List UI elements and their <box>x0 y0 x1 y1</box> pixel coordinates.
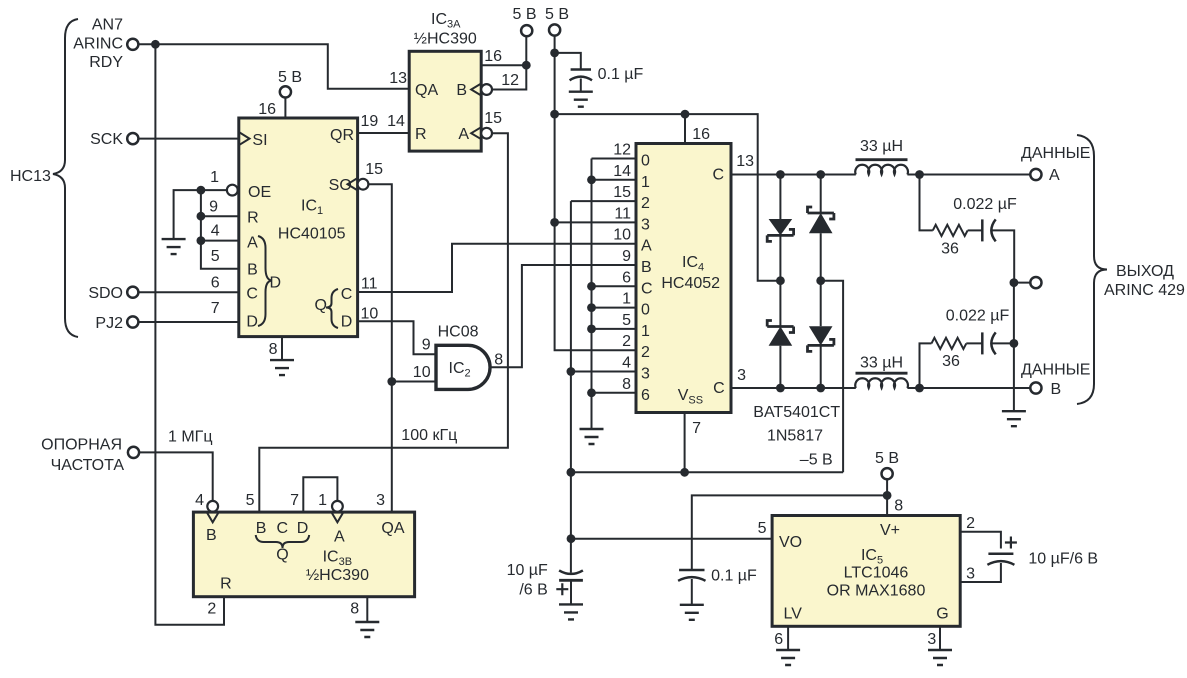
junction -5V clamp node <box>816 276 825 285</box>
wire RC snubber channel B <box>920 343 932 388</box>
svg-text:ЧАСТОТА: ЧАСТОТА <box>51 457 125 474</box>
wedge B input IC3B <box>207 512 219 522</box>
pin 3 stub IC5 <box>960 563 1001 582</box>
svg-text:ДАННЫЕ: ДАННЫЕ <box>1021 145 1090 162</box>
junction 5V IC5 branch <box>883 491 892 500</box>
junction VO to -5V vertical <box>567 534 576 543</box>
ground IC1 pin 8 <box>270 360 294 375</box>
svg-text:D: D <box>270 275 282 292</box>
svg-text:7: 7 <box>290 492 299 509</box>
svg-text:A: A <box>458 126 469 143</box>
svg-text:PJ2: PJ2 <box>95 315 123 332</box>
svg-text:8: 8 <box>350 601 359 618</box>
svg-text:2: 2 <box>641 195 650 212</box>
wire OE bus to ground <box>174 190 201 239</box>
svg-text:5: 5 <box>211 248 220 265</box>
wire 5V top rail to diode clamp node <box>555 114 781 281</box>
wire reference frequency to IC3B B pin 4 <box>139 452 213 501</box>
IC U3B half HC390 box <box>193 512 414 597</box>
wire OE R A B tie-down bus <box>201 190 239 269</box>
junction -5V rail to reservoir cap <box>567 468 576 477</box>
svg-text:OR MAX1680: OR MAX1680 <box>827 583 926 600</box>
diode D1 BAT54 to +5V (left top) <box>779 175 781 220</box>
junction gnd bus pin6 <box>587 282 596 291</box>
junction diode chain left top <box>776 170 785 179</box>
svg-text:10: 10 <box>413 364 431 381</box>
plus sign pump cap <box>1005 537 1017 549</box>
bubble A pin 15 IC3A <box>481 128 492 139</box>
wire to IC2 input 10 <box>392 381 436 383</box>
junction gnd bus pin8 <box>587 388 596 397</box>
svg-text:C: C <box>713 380 725 397</box>
ground IC3B pin 8 <box>355 622 379 637</box>
svg-text:RDY: RDY <box>89 54 123 71</box>
resistor R1 36 channel A <box>933 225 968 236</box>
svg-text:15: 15 <box>613 184 631 201</box>
inductor L1 33uH channel A <box>855 165 908 175</box>
junction 5V to bypass cap <box>550 49 559 58</box>
terminal PJ2 <box>127 316 138 327</box>
junction gnd bus pin5 <box>587 325 596 334</box>
svg-text:8: 8 <box>894 498 903 515</box>
svg-text:16: 16 <box>692 126 710 143</box>
power 5V terminal 2 <box>549 24 560 35</box>
svg-text:SDO: SDO <box>88 285 123 302</box>
bubble SO pin 15 <box>358 179 369 190</box>
svg-text:1 МГц: 1 МГц <box>168 429 213 446</box>
AND gate IC2 HC08 body <box>436 345 490 389</box>
svg-text:10: 10 <box>361 306 379 323</box>
wire C13 output line to inductor <box>731 174 856 176</box>
svg-text:1: 1 <box>641 174 650 191</box>
svg-text:6: 6 <box>622 269 631 286</box>
junction 5V pin16 <box>522 61 531 70</box>
svg-text:16: 16 <box>484 48 502 65</box>
svg-text:2: 2 <box>207 601 216 618</box>
svg-text:5 В: 5 В <box>512 6 536 23</box>
bubble OE pin 1 <box>227 185 238 196</box>
junction channel B RC branch <box>915 384 924 393</box>
svg-text:Q: Q <box>276 547 288 564</box>
svg-text:16: 16 <box>258 101 276 118</box>
svg-text:5: 5 <box>622 312 631 329</box>
svg-text:6: 6 <box>211 275 220 292</box>
wire jumper pin7 D to pin1 A <box>303 477 337 512</box>
junction diode left bottom <box>776 384 785 393</box>
svg-text:½HC390: ½HC390 <box>306 567 369 584</box>
svg-text:QA: QA <box>415 82 438 99</box>
wire SDO to IC1 C pin 6 <box>139 291 239 293</box>
capacitor C1 0.022uF channel A <box>981 219 984 241</box>
svg-text:ARINC: ARINC <box>73 36 123 53</box>
svg-text:15: 15 <box>484 110 502 127</box>
svg-text:A: A <box>641 238 652 255</box>
wire center tap vertical to ground <box>1013 283 1015 412</box>
svg-text:19: 19 <box>361 113 379 130</box>
wire AN7 to IC3A QA pin 13 <box>155 44 409 88</box>
svg-text:10 µF/6 В: 10 µF/6 В <box>1028 551 1098 568</box>
wire A bubble pin15 down-left to IC3B B pin 5 (100 kHz line) <box>259 133 508 512</box>
power 5V terminal 1 <box>521 25 532 36</box>
svg-text:B: B <box>456 82 467 99</box>
svg-text:5: 5 <box>246 492 255 509</box>
capacitor 0.1 uF top bypass <box>571 68 591 71</box>
svg-text:9: 9 <box>622 248 631 265</box>
junction OE bus top <box>197 186 206 195</box>
svg-text:R: R <box>415 126 427 143</box>
svg-text:HC40105: HC40105 <box>278 226 346 243</box>
junction -5V rail left <box>567 468 576 477</box>
svg-text:ДАННЫЕ: ДАННЫЕ <box>1021 362 1090 379</box>
wedge A input IC3B <box>331 512 343 522</box>
svg-text:14: 14 <box>613 163 631 180</box>
IC U5 LTC1046 box <box>772 516 960 627</box>
wire RC snubber channel A <box>920 175 933 231</box>
wire VO -5V output line <box>571 538 772 540</box>
svg-text:1N5817: 1N5817 <box>767 428 823 445</box>
svg-text:5 В: 5 В <box>545 6 569 23</box>
svg-text:3: 3 <box>641 366 650 383</box>
resistor R2 36 channel B <box>932 338 967 349</box>
pin 2 stub IC5 <box>960 532 1001 549</box>
svg-text:R: R <box>247 210 259 227</box>
terminal SCK <box>127 133 138 144</box>
svg-text:3: 3 <box>966 566 975 583</box>
terminal reference frequency <box>128 447 139 458</box>
svg-text:BAT5401CT: BAT5401CT <box>753 404 840 421</box>
wire IC2 output pin8 to IC4 B pin9 <box>490 265 636 367</box>
svg-text:D: D <box>246 314 258 331</box>
svg-text:C: C <box>246 286 258 303</box>
bubble IC3B pin 4 <box>207 501 218 512</box>
junction gnd bus pin1 <box>587 303 596 312</box>
inductor L2 33uH channel B <box>855 378 908 388</box>
svg-text:5 В: 5 В <box>875 450 899 467</box>
wire 5V to IC5 V+ pin 8 <box>886 479 888 515</box>
svg-text:1: 1 <box>622 291 631 308</box>
svg-text:OE: OE <box>248 184 271 201</box>
wire 5V no.1 down to pin 12 bubble <box>492 36 527 89</box>
wire -5V rail <box>571 471 843 473</box>
junction +5V clamp node <box>776 276 785 285</box>
terminal AN7 ARINC RDY <box>127 39 138 50</box>
svg-text:100 кГц: 100 кГц <box>401 427 457 444</box>
wire IC1 pin 8 to ground <box>281 337 283 361</box>
svg-text:R: R <box>220 576 232 593</box>
svg-text:HC13: HC13 <box>10 168 51 185</box>
junction diode right bottom <box>816 384 825 393</box>
IC U4 HC4052 box <box>636 144 731 413</box>
wire inductor B to terminal B <box>907 387 1030 389</box>
svg-text:ARINC 429: ARINC 429 <box>1104 282 1185 299</box>
brace Q outputs IC3B <box>256 535 310 548</box>
diode D3 1N5817 to -5V (right top) <box>820 175 822 214</box>
wire IC4 pin11 row stub <box>555 221 636 223</box>
svg-text:7: 7 <box>211 300 220 317</box>
svg-text:QA: QA <box>381 520 404 537</box>
junction gnd bus pin14 <box>587 175 596 184</box>
junction center tap RC B <box>1010 339 1019 348</box>
svg-text:3: 3 <box>927 631 936 648</box>
svg-text:3: 3 <box>376 492 385 509</box>
svg-text:VO: VO <box>779 534 802 551</box>
svg-text:2: 2 <box>966 515 975 532</box>
capacitor C6 10uF/6V reservoir <box>559 570 583 574</box>
junction center tap top <box>1010 278 1019 287</box>
svg-text:7: 7 <box>692 420 701 437</box>
svg-text:D: D <box>341 314 353 331</box>
svg-text:0: 0 <box>641 153 650 170</box>
svg-text:G: G <box>936 606 948 623</box>
svg-text:LV: LV <box>784 606 803 623</box>
terminal center tap <box>1030 277 1041 288</box>
junction -5V pin4 row <box>567 367 576 376</box>
svg-text:14: 14 <box>387 113 405 130</box>
svg-text:33 µH: 33 µH <box>860 138 903 155</box>
wire AN7 vertical down to IC3B R pin 2 <box>155 44 224 625</box>
wire C3 output line to inductor B <box>731 387 856 389</box>
svg-text:QR: QR <box>330 127 354 144</box>
wire QR pin19 to IC3A R pin14 <box>358 132 410 134</box>
ground reservoir cap <box>559 604 583 619</box>
svg-text:36: 36 <box>942 353 960 370</box>
svg-text:0.022 µF: 0.022 µF <box>946 308 1010 325</box>
IC U1 HC40105 box <box>239 118 358 337</box>
svg-text:0.022 µF: 0.022 µF <box>953 196 1017 213</box>
svg-text:8: 8 <box>494 352 503 369</box>
svg-text:10: 10 <box>613 227 631 244</box>
svg-text:B: B <box>1051 381 1062 398</box>
wire inductor to terminal A <box>907 174 1030 176</box>
junction AN7 <box>151 40 160 49</box>
svg-text:12: 12 <box>613 142 631 159</box>
svg-text:4: 4 <box>622 355 631 372</box>
terminal DATA A <box>1030 169 1041 180</box>
svg-text:D: D <box>297 520 309 537</box>
IC U3A half HC390 box <box>409 51 481 151</box>
svg-text:HC4052: HC4052 <box>661 275 720 292</box>
wire -5V vertical IC4 pin15 row to VO line <box>571 200 636 202</box>
capacitor C2 0.022uF channel B <box>981 332 984 354</box>
svg-text:8: 8 <box>269 341 278 358</box>
brace D inputs IC1 <box>258 236 272 326</box>
wire 5V branch to bypass cap 0.1uF <box>692 495 887 570</box>
wire IC1 QD pin10 to IC2 input 9 <box>358 321 436 354</box>
ground OE bus <box>162 239 186 254</box>
svg-text:36: 36 <box>941 241 959 258</box>
diode D2 BAT54 from +5V (left bottom) <box>779 281 781 327</box>
wire 5V vertical no.2 down to IC4 pin 2 row <box>555 36 636 351</box>
svg-text:C: C <box>341 286 353 303</box>
terminal DATA B <box>1030 382 1041 393</box>
svg-text:Q: Q <box>315 297 327 314</box>
junction channel A RC branch <box>915 170 924 179</box>
wire -5V clamp node to rail <box>821 281 843 473</box>
power 5V terminal of IC1 <box>280 86 291 97</box>
svg-text:6: 6 <box>774 631 783 648</box>
junction diode chain right top <box>816 170 825 179</box>
svg-text:33 µH: 33 µH <box>860 355 903 372</box>
svg-text:V+: V+ <box>880 522 900 539</box>
wire SCK to IC1 SI <box>139 138 239 140</box>
svg-text:6: 6 <box>641 387 650 404</box>
plus sign reservoir cap <box>556 583 568 595</box>
svg-text:12: 12 <box>501 72 519 89</box>
wire reservoir cap to ground <box>570 580 572 604</box>
wire AN7 terminal to junction <box>139 43 156 45</box>
svg-text:C: C <box>641 280 653 297</box>
wire IC4 pin 7 to -5V rail <box>684 413 686 473</box>
svg-text:B: B <box>256 520 267 537</box>
svg-text:11: 11 <box>614 205 631 222</box>
junction SO line to gate input <box>387 377 396 386</box>
junction OE bus R <box>197 212 206 221</box>
junction 5V to IC4 pin 11 row <box>550 218 559 227</box>
wire PJ2 to IC1 D pin 7 <box>139 321 239 323</box>
wire LV pin 6 to ground <box>787 626 789 650</box>
wire to bypass cap C 0.1uF <box>555 53 581 70</box>
svg-text:LTC1046: LTC1046 <box>844 565 909 582</box>
svg-text:B: B <box>247 262 258 279</box>
svg-text:SCK: SCK <box>90 131 123 148</box>
svg-text:1: 1 <box>210 169 219 186</box>
wire G pin 3 to ground <box>939 626 941 650</box>
capacitor C5 10uF/6V pump <box>988 553 1013 556</box>
wire IC4 pin4 row stub <box>571 371 636 373</box>
svg-text:HC08: HC08 <box>438 324 479 341</box>
diode D4 1N5817 from -5V (right bottom) <box>820 281 822 327</box>
svg-text:A: A <box>247 235 258 252</box>
svg-text:ОПОРНАЯ: ОПОРНАЯ <box>41 437 122 454</box>
svg-text:10 µF: 10 µF <box>507 562 548 579</box>
svg-text:5 В: 5 В <box>278 69 302 86</box>
svg-text:2: 2 <box>641 344 650 361</box>
svg-text:15: 15 <box>365 161 383 178</box>
power 5V terminal IC5 <box>882 468 893 479</box>
svg-text:2: 2 <box>622 333 631 350</box>
svg-text:1: 1 <box>318 492 327 509</box>
svg-text:13: 13 <box>389 70 407 87</box>
ground IC4 bus <box>580 429 604 444</box>
svg-text:½HC390: ½HC390 <box>414 31 477 48</box>
svg-text:C: C <box>712 167 724 184</box>
svg-text:3: 3 <box>641 216 650 233</box>
svg-text:9: 9 <box>209 199 218 216</box>
junction OE bus A <box>197 236 206 245</box>
svg-text:0.1 µF: 0.1 µF <box>711 568 757 585</box>
svg-text:4: 4 <box>195 492 204 509</box>
svg-text:13: 13 <box>736 153 754 170</box>
wire cap B to center tap vertical <box>991 342 1014 344</box>
svg-text:IC3A: IC3A <box>431 11 461 31</box>
bubble pin 1 A IC3B <box>332 501 343 512</box>
svg-text:0.1 µF: 0.1 µF <box>598 66 644 83</box>
capacitor 0.1 uF IC5 bypass <box>679 569 704 572</box>
svg-text:11: 11 <box>361 276 378 293</box>
svg-text:0: 0 <box>641 302 650 319</box>
svg-text:B: B <box>206 527 217 544</box>
junction top rail IC4 pin16 <box>681 110 690 119</box>
svg-text:AN7: AN7 <box>92 17 123 34</box>
wire SO pin15 down to IC3B QA pin 3 (100 kHz) <box>368 184 392 512</box>
junction -5V rail IC4 pin7 <box>680 468 689 477</box>
bubble B pin 12 IC3A <box>481 84 492 95</box>
wire 5V to IC1 pin 16 <box>284 98 286 119</box>
ground bypass IC5 <box>680 605 704 620</box>
brace HC13 grouping input terminals <box>53 19 78 337</box>
junction 5V rail to IC4 VDD <box>550 110 559 119</box>
svg-text:A: A <box>1049 167 1060 184</box>
svg-text:B: B <box>641 259 652 276</box>
clock wedge SI input IC1 <box>239 132 250 145</box>
svg-text:–5 В: –5 В <box>800 452 833 469</box>
svg-text:/6 В: /6 В <box>519 582 547 599</box>
svg-text:SI: SI <box>252 132 267 149</box>
svg-text:4: 4 <box>211 223 220 240</box>
svg-text:9: 9 <box>422 337 431 354</box>
wire IC3B pin 8 to ground <box>366 597 368 622</box>
svg-text:5: 5 <box>758 520 767 537</box>
svg-text:ВЫХОД: ВЫХОД <box>1116 263 1174 280</box>
ground center tap <box>1002 411 1026 426</box>
ground bypass cap <box>569 92 593 107</box>
svg-text:A: A <box>334 529 345 546</box>
svg-text:1: 1 <box>641 323 650 340</box>
brace output ARINC 429 <box>1077 135 1107 404</box>
pin 16 stub IC3A <box>481 64 526 66</box>
wire IC4 pin 16 stub <box>684 114 686 143</box>
wire cap to center tap <box>991 230 1015 282</box>
terminal SDO <box>127 287 138 298</box>
wire ground bus IC4 rows 12/14/6/1/5/8 <box>591 159 593 430</box>
wire IC1 QC pin11 to IC4 A pin10 <box>358 244 636 292</box>
svg-text:C: C <box>277 520 289 537</box>
wire center tap stub <box>1014 282 1030 284</box>
ground LV <box>776 650 800 665</box>
svg-text:3: 3 <box>737 367 746 384</box>
svg-text:8: 8 <box>622 376 631 393</box>
ground G <box>928 650 952 665</box>
